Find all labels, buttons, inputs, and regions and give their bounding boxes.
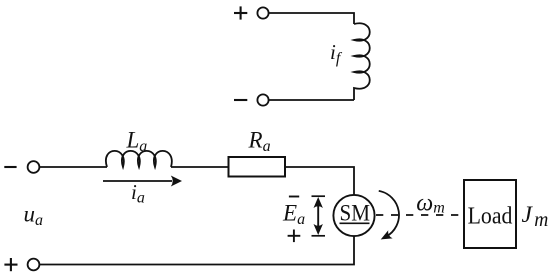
label - (Ea top) (289, 196, 299, 198)
armature + terminal (28, 259, 40, 271)
label - (armature) (4, 166, 16, 168)
svg-text:La: La (126, 128, 148, 156)
svg-text:Ra: Ra (248, 128, 271, 156)
shaft dashed line (376, 214, 464, 216)
label + (Ea bottom) (288, 235, 301, 237)
field inductor coil Lf (354, 23, 370, 100)
resistor Ra (229, 157, 286, 177)
SM underline (340, 222, 370, 224)
wire terminal to La (39, 166, 107, 168)
motor SM circle (333, 195, 374, 236)
svg-text:m: m (534, 210, 548, 231)
Ea arrowhead up (314, 197, 323, 208)
Ea measurement arrow (312, 195, 326, 197)
svg-text:Ea: Ea (282, 201, 305, 229)
svg-text:ωm: ωm (416, 191, 445, 217)
load box (464, 180, 516, 248)
rotation arrow arc (379, 191, 399, 237)
field bottom wire (269, 99, 354, 101)
ia arrowhead (171, 176, 182, 187)
armature - terminal (28, 161, 40, 173)
label + (field) (234, 12, 247, 14)
Ea arrowhead down (314, 224, 323, 235)
svg-text:ia: ia (131, 180, 145, 207)
wire Ra to corner (285, 167, 354, 195)
svg-text:J: J (522, 202, 534, 228)
label + (armature) (4, 264, 17, 266)
svg-text:ua: ua (24, 202, 44, 230)
inductor La (106, 151, 172, 167)
field + terminal (257, 7, 268, 18)
wire La to Ra (171, 166, 229, 168)
current arrow ia (103, 180, 172, 182)
svg-text:if: if (330, 40, 343, 67)
field top wire (269, 13, 354, 24)
wire SM to bottom rail (39, 236, 354, 264)
svg-text:Load: Load (468, 203, 513, 230)
field - terminal (257, 94, 268, 105)
label - (field) (234, 99, 247, 101)
rotation arrowhead (381, 230, 393, 239)
